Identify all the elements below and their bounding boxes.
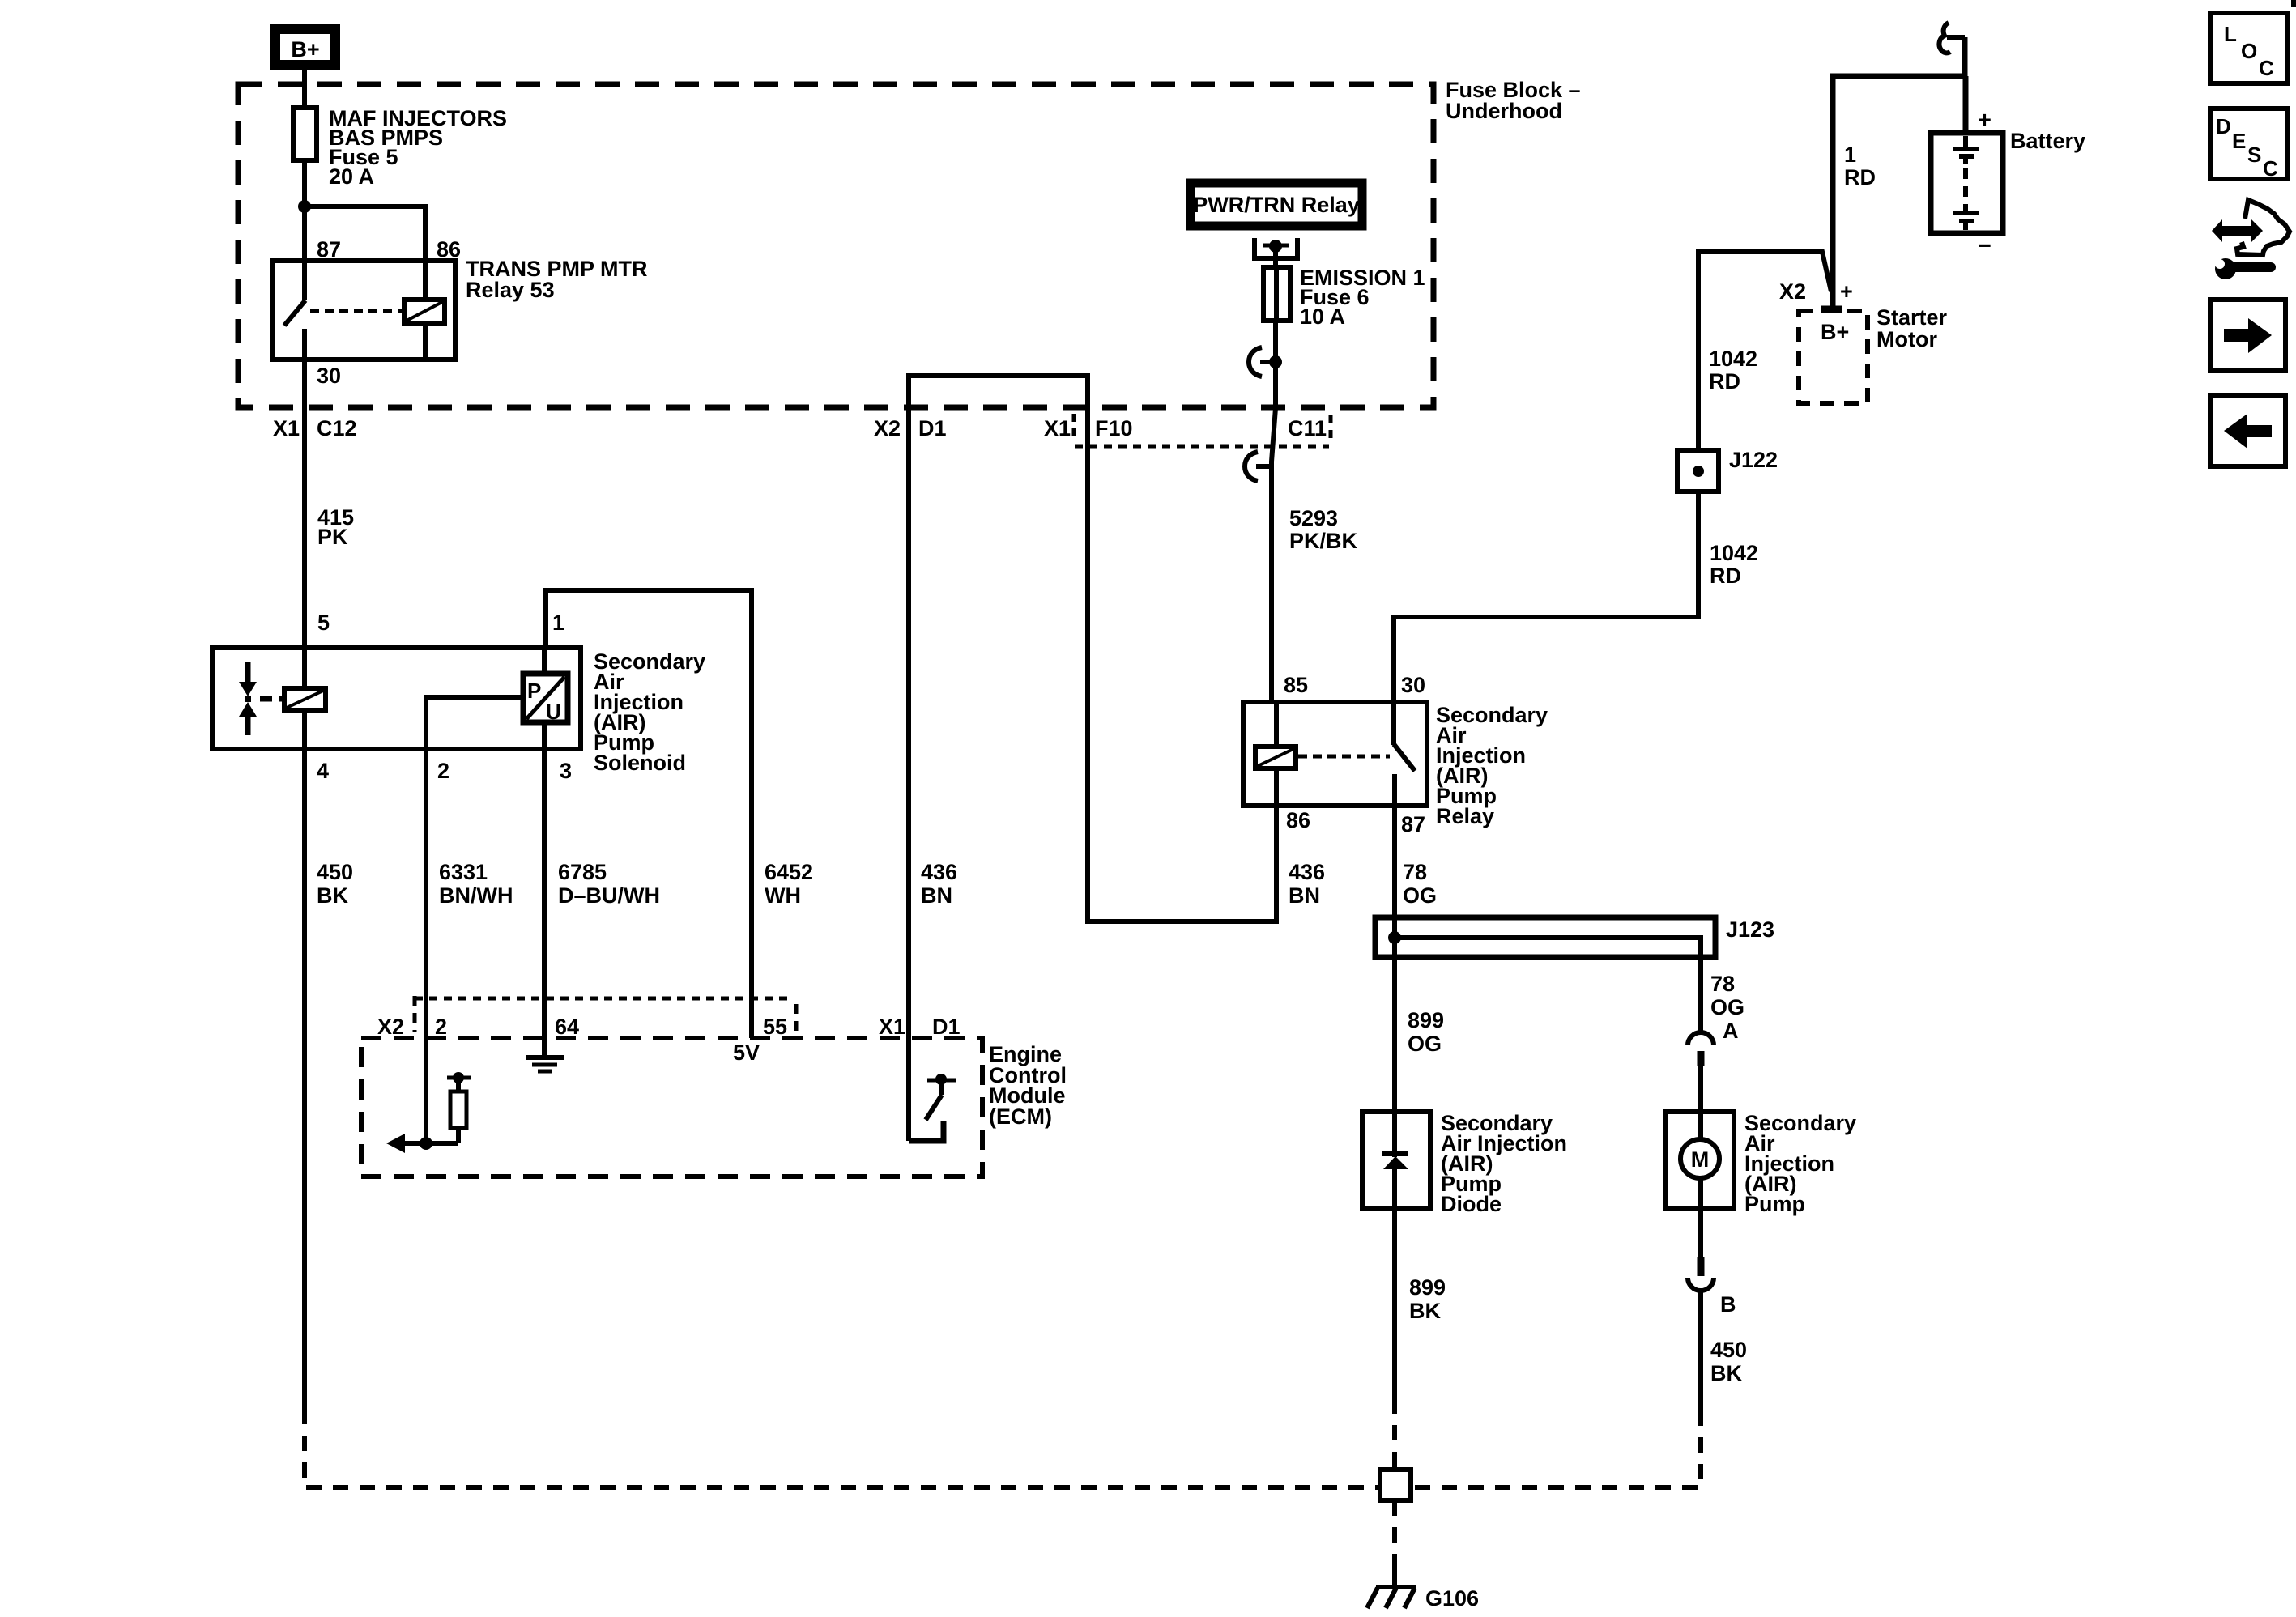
svg-text:86: 86 (1286, 808, 1310, 832)
svg-text:OG: OG (1710, 995, 1744, 1019)
svg-text:1: 1 (1844, 143, 1856, 167)
svg-text:WH: WH (765, 883, 801, 908)
svg-text:BN/WH: BN/WH (439, 883, 513, 908)
svg-text:1: 1 (552, 611, 564, 635)
svg-text:BK: BK (317, 883, 348, 908)
wire fuse to junction (302, 160, 307, 261)
solenoid valve arrows (239, 662, 257, 735)
svg-text:899: 899 (1409, 1275, 1446, 1300)
ECM internal ground pin 64 (526, 998, 564, 1071)
svg-text:436: 436 (1289, 860, 1325, 884)
svg-text:PK/BK: PK/BK (1289, 529, 1358, 553)
svg-text:C: C (2259, 56, 2274, 80)
svg-text:U: U (546, 700, 561, 724)
connector B symbol (1688, 1257, 1736, 1317)
svg-text:OG: OG (1408, 1032, 1442, 1056)
svg-text:X2: X2 (377, 1015, 404, 1039)
inline connector hook upper F10 (1249, 347, 1282, 377)
svg-text:RD: RD (1844, 165, 1876, 189)
wire relay 30 down through C12 (302, 360, 307, 648)
ground G106 symbol (1367, 1569, 1479, 1611)
relay 53 actuation dashed link (310, 309, 404, 313)
wire label 6785 D-BU/WH (558, 860, 660, 908)
AIR pump label (1744, 1111, 1856, 1216)
svg-text:B+: B+ (291, 37, 319, 62)
P/U pressure transducer box (523, 648, 568, 749)
svg-text:1042: 1042 (1709, 347, 1757, 371)
svg-text:436: 436 (921, 860, 957, 884)
dashed ground wire diode branch (1392, 1398, 1397, 1467)
wire 415 PK label (317, 505, 354, 549)
svg-text:D–BU/WH: D–BU/WH (558, 883, 660, 908)
wire label 78 OG (1403, 860, 1437, 908)
svg-text:Battery: Battery (2010, 129, 2085, 153)
svg-text:BN: BN (1289, 883, 1320, 908)
svg-text:D1: D1 (932, 1015, 961, 1039)
svg-text:OG: OG (1403, 883, 1437, 908)
svg-text:87: 87 (1401, 812, 1425, 836)
ECM pin labels X2 2 64 55 (377, 1015, 787, 1039)
fuse 6 label (1300, 266, 1425, 329)
wire label 6331 BN/WH (439, 860, 513, 908)
svg-text:O: O (2241, 39, 2257, 63)
svg-text:P: P (527, 679, 541, 703)
AIR pump relay label (1436, 703, 1548, 828)
svg-text:C11: C11 (1288, 416, 1327, 440)
AIR relay fixed contact pin 87 (1392, 774, 1397, 808)
svg-text:Pump: Pump (1744, 1192, 1805, 1216)
svg-text:BK: BK (1409, 1299, 1441, 1323)
svg-text:10 A: 10 A (1300, 304, 1345, 329)
AIR pump diode label (1441, 1111, 1567, 1216)
dashed ground wire from solenoid branch (305, 1409, 1379, 1487)
wire B+ to fuse 5 (302, 69, 307, 110)
svg-text:J122: J122 (1729, 448, 1778, 472)
wire label 899 OG (1408, 1008, 1444, 1056)
svg-text:6452: 6452 (765, 860, 813, 884)
relay 53 switch blade pin 87 (284, 258, 305, 326)
ECM pull-up resistor (426, 1072, 471, 1143)
svg-text:78: 78 (1403, 860, 1427, 884)
icon DESC button (2210, 109, 2287, 181)
wire 1 RD battery positive (1833, 37, 1965, 306)
svg-text:85: 85 (1284, 673, 1308, 697)
wire label 1042 RD upper (1709, 347, 1757, 394)
solenoid dash link (260, 696, 272, 702)
fuse block underhood dashed box (238, 84, 1433, 407)
wire label 436 BN right (1289, 860, 1325, 908)
icon next arrow button (2210, 300, 2285, 371)
starter X2 + labels (1779, 279, 1853, 304)
wire 436 BN loop X2 D1 to X1 F10 (909, 376, 1276, 1141)
page corner mark (2291, 0, 2296, 7)
svg-text:450: 450 (317, 860, 353, 884)
svg-text:Solenoid: Solenoid (594, 751, 686, 775)
junction node (298, 200, 311, 213)
wire label 450 BK (317, 860, 353, 908)
battery (1931, 133, 2003, 233)
wire label 1042 RD lower (1710, 541, 1758, 588)
starter B+ terminal bar (1821, 306, 1842, 313)
wire label 78 OG right (1710, 972, 1744, 1019)
svg-text:2: 2 (435, 1015, 447, 1039)
fuse 6 holder bracket (1254, 238, 1297, 258)
wire 899 BK diode to ground (1392, 1208, 1397, 1398)
AIR pump solenoid box (212, 648, 581, 749)
svg-text:450: 450 (1710, 1338, 1747, 1362)
svg-text:BK: BK (1710, 1361, 1742, 1385)
PWR/TRN Relay feed box (1191, 183, 1362, 226)
AIR relay actuation dashed link (1298, 755, 1390, 759)
B+ power symbol (275, 29, 335, 65)
svg-text:5V: 5V (733, 1040, 760, 1065)
fuse block pin labels X1 F10 (1044, 414, 1133, 440)
svg-text:6331: 6331 (439, 860, 488, 884)
svg-text:Starter: Starter (1876, 305, 1948, 330)
wire 78 OG J123 to connector A (1698, 957, 1703, 1032)
svg-text:(ECM): (ECM) (989, 1104, 1052, 1129)
fuse F6 EMISSION 1 10A (1263, 246, 1290, 362)
inline connector hook lower C11 (1245, 452, 1272, 481)
svg-text:5293: 5293 (1289, 506, 1338, 530)
fuse F5 MAF INJECTORS BAS PMPS 20A (293, 108, 317, 160)
svg-text:Relay: Relay (1436, 804, 1494, 828)
svg-text:55: 55 (763, 1015, 787, 1039)
icon back arrow button (2210, 395, 2285, 466)
AIR relay switch blade pin 30 (1394, 700, 1415, 771)
wire 1042 RD J122 to B+ junction (1698, 252, 1831, 450)
svg-text:D1: D1 (918, 416, 947, 440)
svg-text:Relay 53: Relay 53 (466, 278, 555, 302)
svg-text:4: 4 (317, 759, 329, 783)
svg-text:64: 64 (555, 1015, 579, 1039)
svg-text:J123: J123 (1726, 917, 1774, 942)
ECM label (989, 1042, 1067, 1129)
ECM output switch D1 (909, 1074, 956, 1141)
wire 1042 RD J122 to relay 30 (1394, 491, 1698, 704)
svg-text:20 A: 20 A (329, 164, 374, 189)
svg-text:M: M (1691, 1147, 1710, 1172)
svg-text:X2: X2 (1779, 279, 1806, 304)
wire 6331 BN/WH pin 2 to ECM (424, 749, 428, 1001)
connector X1 C12 labels (273, 416, 357, 440)
ECM arrow out (386, 1134, 426, 1153)
AIR pump relay box (1243, 702, 1427, 806)
relay 53 switch fixed contact pin 30 (302, 329, 307, 362)
svg-text:X1: X1 (273, 416, 300, 440)
solenoid coil (284, 688, 326, 710)
AIR relay coil (1255, 700, 1296, 808)
wire relay 87 down to J123 (1392, 806, 1397, 938)
wire 450 BK motor to ground (1698, 1290, 1703, 1411)
svg-text:C: C (2263, 156, 2278, 181)
ECM connector dotted row (415, 996, 796, 1032)
icon vehicle double arrow (2212, 219, 2263, 242)
svg-text:1042: 1042 (1710, 541, 1758, 565)
wire motor to connector B (1698, 1208, 1703, 1257)
wire label 450 BK right (1710, 1338, 1747, 1385)
svg-text:RD: RD (1709, 369, 1740, 394)
svg-text:+: + (1840, 279, 1853, 304)
svg-text:A: A (1723, 1019, 1739, 1043)
wire relay 86 to loop (1274, 806, 1279, 924)
solenoid coil stubs on wire (302, 648, 307, 749)
solenoid label (594, 649, 705, 775)
svg-text:E: E (2232, 129, 2246, 153)
splice J122 box (1677, 448, 1778, 491)
svg-text:−: − (1978, 233, 1991, 259)
fuse block pin labels X2 D1 (874, 416, 947, 440)
svg-text:78: 78 (1710, 972, 1735, 996)
wire label 436 BN left (921, 860, 957, 908)
wire label 899 BK (1409, 1275, 1446, 1323)
svg-text:S: S (2247, 143, 2261, 167)
ECM 5V ref stub pin 55 (733, 998, 760, 1065)
wire connector A to AIR pump (1698, 1066, 1703, 1112)
svg-text:6785: 6785 (558, 860, 607, 884)
dashed wire splice to G106 (1392, 1500, 1397, 1569)
wire pin1 loop over to 6452 WH (546, 590, 752, 1001)
C11 connector dotted row (1075, 415, 1331, 446)
svg-text:B: B (1720, 1292, 1736, 1317)
svg-text:+: + (1978, 108, 1991, 134)
wire junction to relay pin 86 (305, 206, 425, 261)
svg-text:87: 87 (317, 237, 341, 262)
starter motor dashed box (1799, 311, 1868, 403)
dashed ground wire from pump branch (1413, 1411, 1701, 1487)
J123 bus bar (1388, 931, 1701, 957)
svg-text:X1: X1 (879, 1015, 905, 1039)
relay 53 coil (404, 258, 445, 362)
wire 6785 D-BU/WH pin 3 to ECM (542, 749, 547, 1001)
icon LOC button (2210, 13, 2287, 83)
svg-text:Motor: Motor (1876, 327, 1937, 351)
svg-text:3: 3 (560, 759, 572, 783)
wire label 1 RD (1844, 143, 1876, 189)
ECM pin labels X1 D1 (879, 1015, 961, 1039)
fuse 5 label (329, 106, 507, 189)
ECM dashed box (361, 1038, 982, 1177)
svg-text:5: 5 (317, 611, 330, 635)
connector A symbol (1688, 1019, 1739, 1066)
wire 5293 through C11 (1272, 362, 1276, 702)
svg-text:C12: C12 (317, 416, 357, 440)
ground splice box (1380, 1470, 1411, 1500)
svg-text:B+: B+ (1821, 320, 1849, 344)
relay TRANS PMP MTR Relay 53 box (273, 261, 455, 360)
svg-text:BN: BN (921, 883, 952, 908)
offpage connector hook battery feed (1939, 23, 1965, 53)
starter motor label (1876, 305, 1948, 351)
fuse block label (1446, 78, 1581, 123)
ECM driver low-side: wire pin2 (424, 998, 428, 1143)
svg-text:D: D (2216, 114, 2231, 138)
icon wrench (2215, 258, 2271, 279)
svg-text:X1: X1 (1044, 416, 1071, 440)
AIR pump motor box (1666, 1112, 1734, 1208)
svg-text:86: 86 (437, 237, 461, 262)
wire P/U to pin 2 (426, 697, 523, 749)
svg-text:RD: RD (1710, 564, 1741, 588)
svg-text:L: L (2224, 22, 2237, 46)
icon vehicle outline (2237, 200, 2290, 255)
svg-text:30: 30 (1401, 673, 1425, 697)
svg-text:Underhood: Underhood (1446, 99, 1562, 123)
splice J123 box (1375, 917, 1774, 957)
svg-text:PWR/TRN Relay: PWR/TRN Relay (1193, 193, 1360, 217)
svg-text:899: 899 (1408, 1008, 1444, 1032)
wire 450 BK from solenoid pin 4 (302, 749, 307, 1409)
svg-text:Diode: Diode (1441, 1192, 1502, 1216)
svg-text:2: 2 (437, 759, 449, 783)
wire label 6452 WH (765, 860, 813, 908)
AIR pump diode box (1362, 1112, 1430, 1208)
wire battery drop (1963, 76, 1969, 134)
svg-text:F10: F10 (1095, 416, 1133, 440)
svg-text:30: 30 (317, 364, 341, 388)
svg-text:G106: G106 (1425, 1586, 1479, 1611)
wire label 5293 PK/BK (1289, 506, 1358, 553)
wire 899 OG J123 to diode (1392, 938, 1397, 1112)
svg-text:X2: X2 (874, 416, 901, 440)
svg-text:PK: PK (317, 525, 348, 549)
relay 53 label (466, 257, 648, 302)
ECM junction dot (420, 1137, 432, 1150)
